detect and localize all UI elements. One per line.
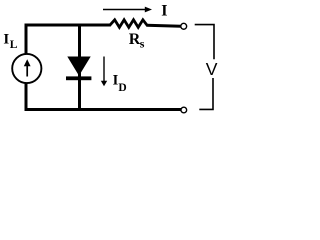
svg-text:V: V bbox=[206, 59, 218, 79]
svg-text:I: I bbox=[161, 2, 167, 19]
svg-text:s: s bbox=[140, 37, 145, 51]
svg-text:I: I bbox=[3, 32, 9, 48]
svg-text:D: D bbox=[118, 82, 126, 94]
svg-text:L: L bbox=[10, 39, 18, 51]
